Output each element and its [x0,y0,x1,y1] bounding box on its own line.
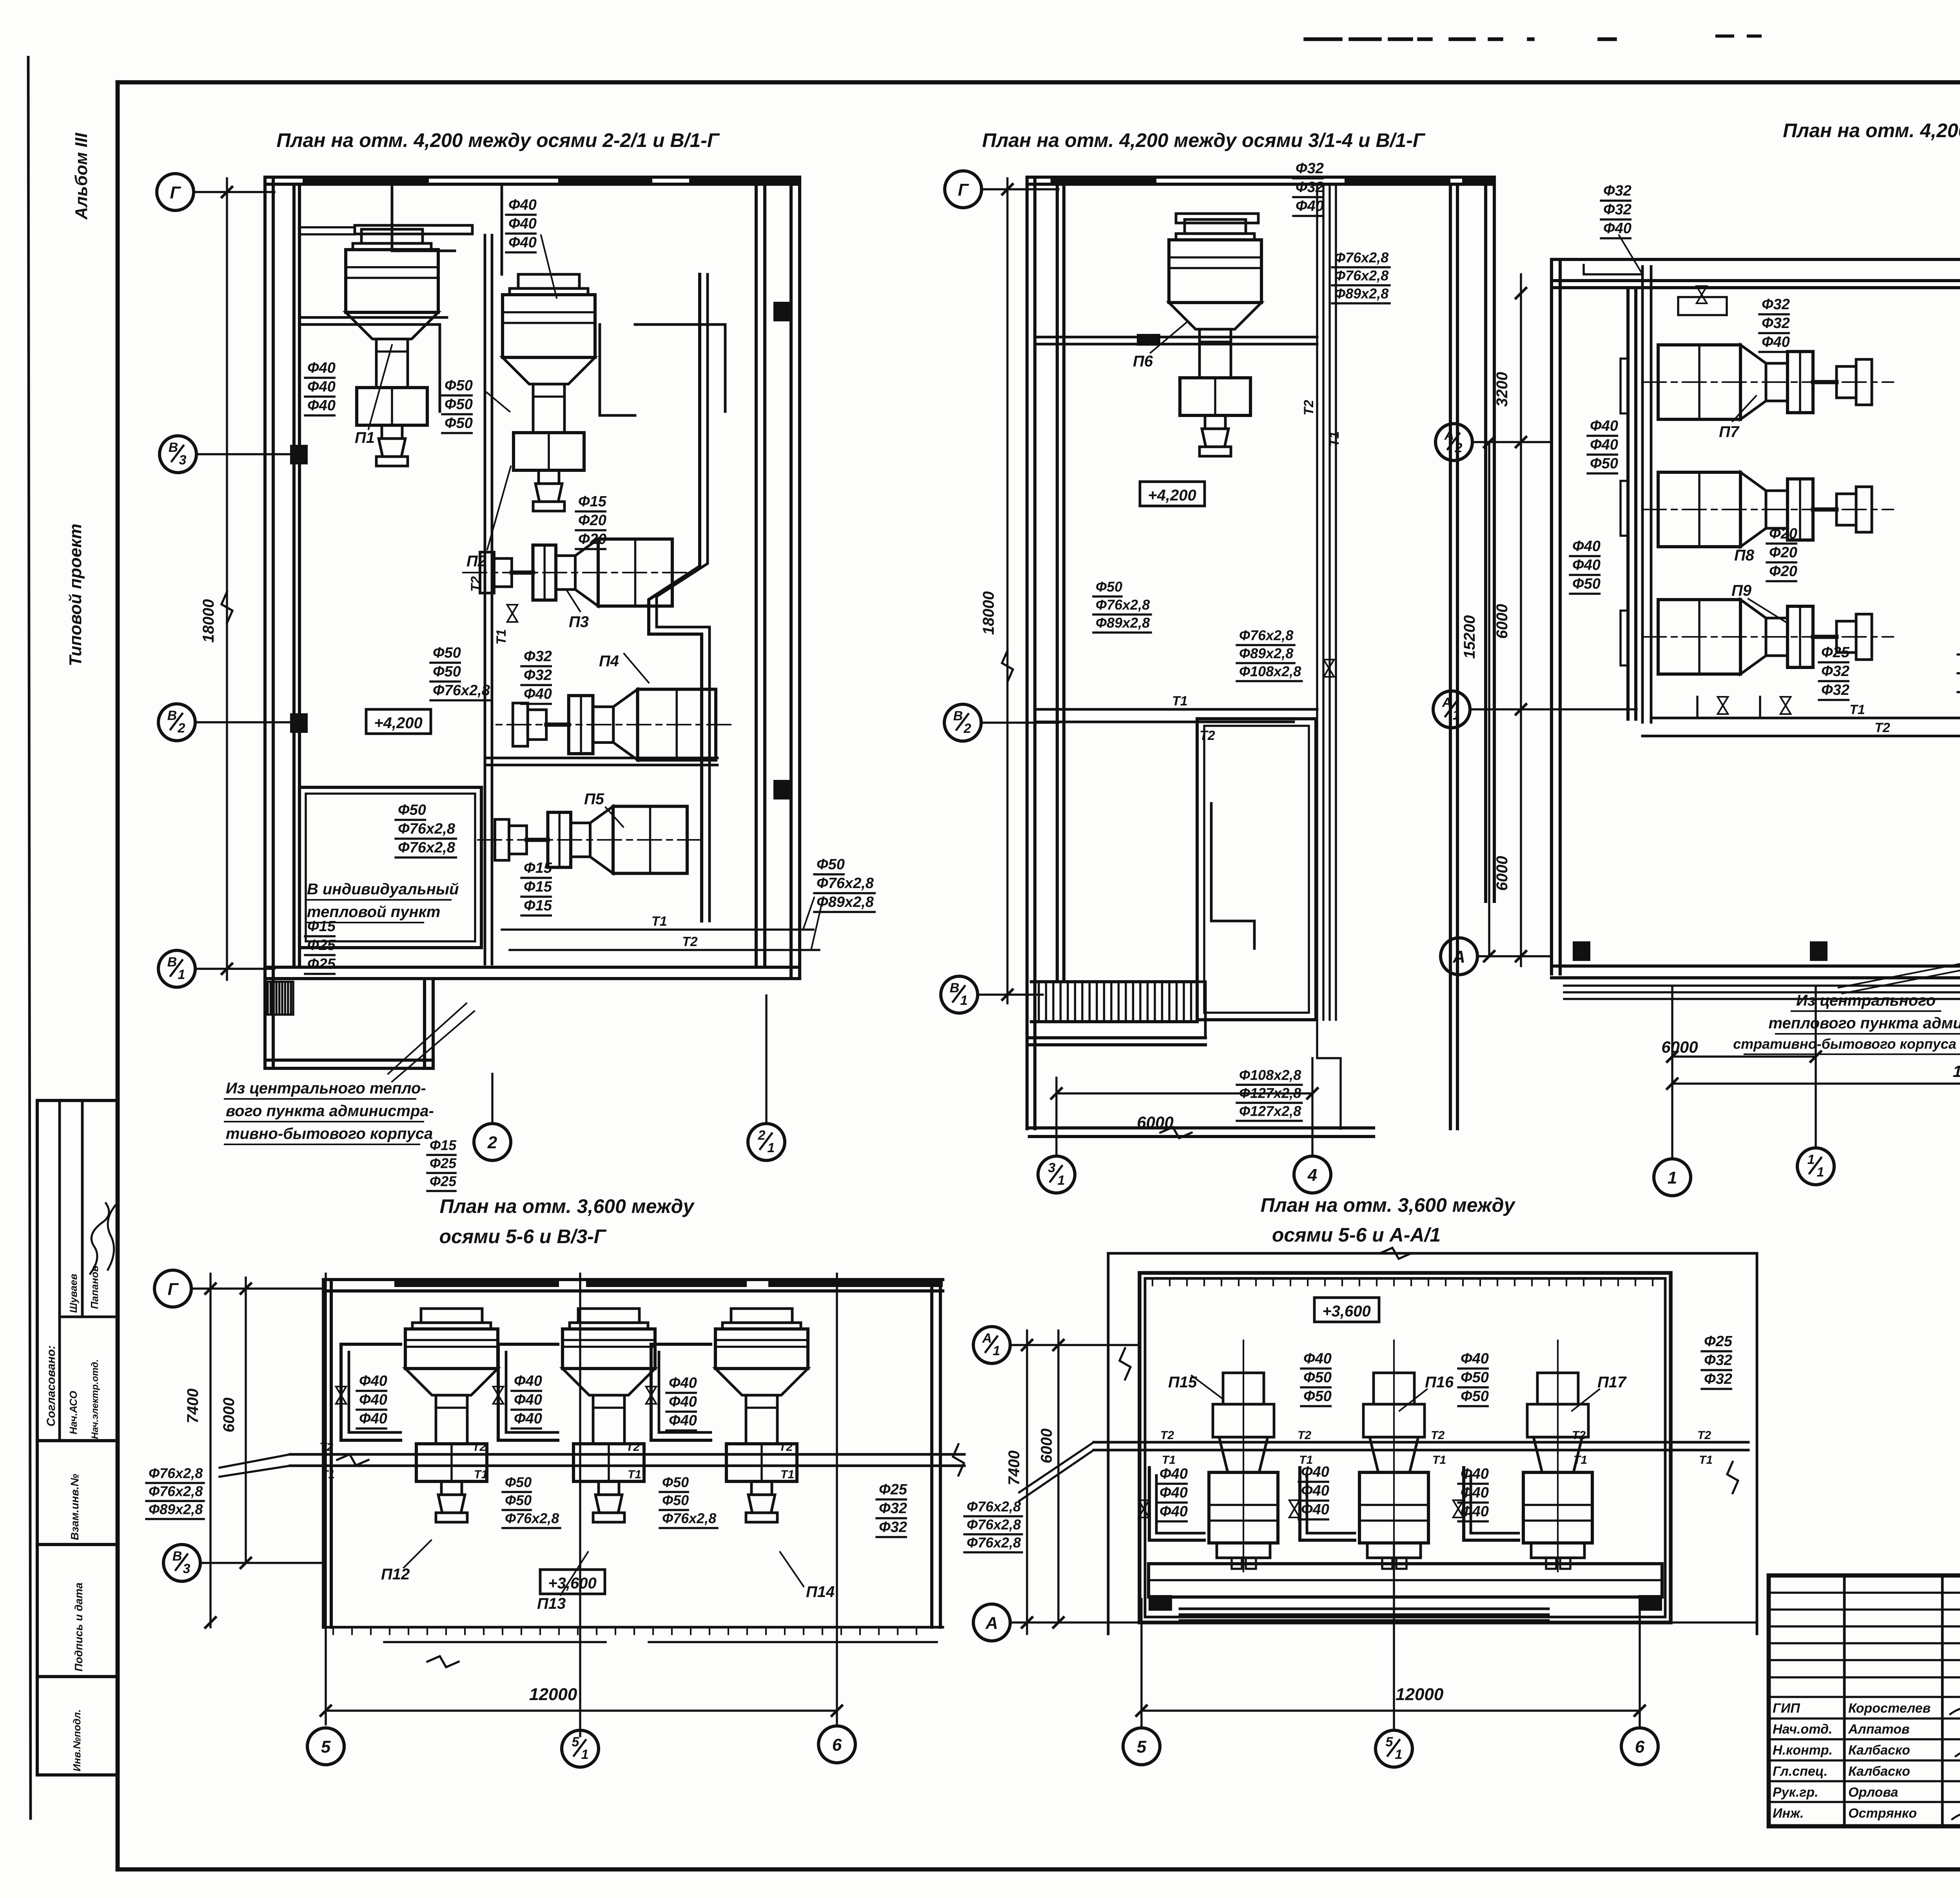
svg-text:Ф15: Ф15 [524,897,552,914]
svg-text:П5: П5 [584,790,604,808]
svg-text:Ф50: Ф50 [433,663,461,680]
svg-text:Ф20: Ф20 [578,512,606,529]
svg-text:Ф32: Ф32 [1821,682,1849,698]
svg-text:Ф50: Ф50 [505,1474,532,1490]
svg-text:Ф15: Ф15 [307,918,336,935]
svg-text:Ф20: Ф20 [1769,544,1797,561]
svg-text:7400: 7400 [1005,1450,1023,1485]
svg-text:Калбаско: Калбаско [1848,1743,1910,1758]
svg-text:Ф40: Ф40 [1590,437,1618,453]
svg-text:1: 1 [768,1140,775,1155]
svg-text:Ф32: Ф32 [1603,201,1632,218]
svg-text:осями 5-6 и В/3-Г: осями 5-6 и В/3-Г [439,1225,607,1247]
svg-text:Ф40: Ф40 [1301,1501,1329,1518]
svg-text:В: В [950,981,960,995]
svg-text:П2: П2 [466,553,486,570]
svg-text:Т1: Т1 [1432,1454,1446,1467]
svg-text:1: 1 [1453,708,1460,723]
svg-text:План на отм. 4,200 между осями: План на отм. 4,200 между осями 1÷3 и А-А… [1783,120,1960,141]
svg-text:3: 3 [1048,1160,1056,1175]
svg-text:+4,200: +4,200 [1148,487,1196,504]
svg-text:Типовой проект: Типовой проект [66,524,85,666]
svg-text:Ф76х2,8: Ф76х2,8 [967,1535,1021,1551]
svg-text:Орлова: Орлова [1848,1785,1898,1800]
svg-text:Ф32: Ф32 [1821,663,1849,680]
svg-text:Альбом III: Альбом III [72,132,91,220]
svg-text:Ф32: Ф32 [524,648,552,665]
svg-text:П6: П6 [1133,353,1153,370]
svg-text:3: 3 [183,1561,191,1576]
svg-text:П7: П7 [1719,423,1740,441]
svg-text:Ф50: Ф50 [1590,455,1618,472]
svg-text:Ф76х2,8: Ф76х2,8 [1239,627,1293,644]
svg-text:Ф20: Ф20 [1769,563,1797,580]
svg-text:Ф108х2,8: Ф108х2,8 [1239,663,1301,680]
svg-text:Ф25: Ф25 [307,956,336,972]
svg-text:Н.контр.: Н.контр. [1773,1743,1833,1758]
svg-text:Ф25: Ф25 [1821,644,1850,661]
svg-text:П4: П4 [599,653,619,670]
svg-text:2: 2 [964,721,971,736]
svg-text:Ф89х2,8: Ф89х2,8 [1096,615,1150,631]
svg-text:Т1: Т1 [652,914,667,929]
svg-text:Ф76х2,8: Ф76х2,8 [433,682,490,699]
svg-text:1: 1 [1668,1168,1677,1187]
svg-text:Нач.отд.: Нач.отд. [1773,1722,1832,1737]
svg-text:15200: 15200 [1461,615,1478,659]
svg-text:Ф15: Ф15 [524,860,552,876]
svg-text:П3: П3 [569,613,589,631]
svg-text:Шуваев: Шуваев [67,1274,79,1313]
svg-text:Ф32: Ф32 [879,1519,907,1535]
svg-text:5: 5 [321,1737,331,1757]
svg-text:осями 5-6 и А-А/1: осями 5-6 и А-А/1 [1272,1224,1441,1246]
svg-text:Ф32: Ф32 [1296,160,1324,177]
svg-text:Ф50: Ф50 [1461,1369,1489,1386]
svg-text:Ф50: Ф50 [398,802,426,818]
svg-text:Т1: Т1 [474,1468,488,1481]
svg-text:5: 5 [1137,1737,1147,1757]
svg-text:5: 5 [1386,1735,1394,1749]
svg-text:Т2: Т2 [779,1441,793,1454]
svg-text:Т2: Т2 [1572,1429,1586,1442]
svg-text:Согласовано:: Согласовано: [45,1345,58,1427]
svg-text:1: 1 [1058,1173,1065,1188]
svg-text:Из центрального: Из центрального [1796,992,1936,1009]
svg-text:Ф40: Ф40 [1301,1464,1329,1480]
svg-text:А: А [1452,947,1465,966]
svg-text:Ф40: Ф40 [1160,1466,1188,1482]
svg-text:Инв.№подл.: Инв.№подл. [71,1709,83,1771]
svg-text:Ф76х2,8: Ф76х2,8 [398,821,456,837]
svg-text:Ф40: Ф40 [508,216,537,232]
svg-text:Гл.спец.: Гл.спец. [1773,1764,1828,1779]
svg-text:Ф20: Ф20 [578,531,606,547]
svg-text:Ф32: Ф32 [524,667,552,683]
svg-text:3200: 3200 [1494,372,1511,407]
svg-text:Ф76х2,8: Ф76х2,8 [1334,268,1388,284]
svg-text:Т2: Т2 [1875,720,1890,735]
svg-text:Ф40: Ф40 [307,360,336,376]
svg-text:Т1: Т1 [1327,431,1342,447]
svg-text:6000: 6000 [1038,1428,1055,1463]
svg-text:Ф40: Ф40 [1590,418,1618,434]
svg-text:Т1: Т1 [1849,702,1865,717]
svg-text:Ф76х2,8: Ф76х2,8 [149,1465,203,1481]
svg-text:Ф50: Ф50 [1303,1369,1332,1386]
svg-text:А: А [985,1613,998,1633]
svg-text:П13: П13 [537,1595,566,1612]
svg-text:+3,600: +3,600 [1322,1303,1370,1320]
svg-text:стративно-бытового корпуса Ф10: стративно-бытового корпуса Ф108х2,8 [1733,1036,1960,1052]
svg-text:4: 4 [1307,1166,1317,1185]
svg-text:В индивидуальный: В индивидуальный [307,881,459,898]
svg-text:Взам.инв.№: Взам.инв.№ [69,1474,81,1540]
svg-text:Т1: Т1 [1172,694,1188,709]
svg-text:Ф40: Ф40 [508,234,537,251]
svg-text:1: 1 [581,1747,589,1762]
svg-text:Ф32: Ф32 [1762,315,1790,332]
svg-text:В: В [167,708,177,723]
svg-text:Ф89х2,8: Ф89х2,8 [1239,645,1293,662]
svg-text:Г: Г [170,183,181,202]
svg-text:Ф25: Ф25 [879,1481,907,1498]
svg-text:П9: П9 [1731,582,1752,599]
svg-text:Ф76х2,8: Ф76х2,8 [149,1483,203,1499]
svg-text:Ф50: Ф50 [1303,1388,1332,1405]
svg-text:+4,200: +4,200 [374,714,422,732]
svg-text:2: 2 [1455,441,1463,455]
svg-text:Ф40: Ф40 [1572,557,1601,573]
svg-text:Т2: Т2 [1200,728,1215,743]
svg-text:Ф89х2,8: Ф89х2,8 [817,894,874,910]
svg-text:Ф50: Ф50 [445,415,473,431]
svg-text:6000: 6000 [1494,604,1511,639]
svg-text:Ф40: Ф40 [514,1373,542,1389]
svg-text:Подпись и дата: Подпись и дата [73,1583,85,1671]
svg-text:тепловой пункт: тепловой пункт [307,903,440,921]
svg-text:П12: П12 [381,1566,410,1583]
svg-text:А: А [1442,695,1452,710]
svg-text:Г: Г [167,1280,179,1299]
svg-text:Рук.гр.: Рук.гр. [1773,1785,1818,1800]
svg-text:Ф25: Ф25 [430,1155,457,1171]
svg-text:Ф50: Ф50 [662,1474,689,1490]
svg-text:12000: 12000 [1396,1685,1444,1704]
svg-text:А: А [1444,428,1454,443]
svg-text:П16: П16 [1425,1374,1454,1391]
svg-text:Ф40: Ф40 [359,1373,387,1389]
svg-text:Ф25: Ф25 [1704,1333,1733,1350]
svg-text:П8: П8 [1734,547,1755,564]
svg-text:6000: 6000 [1494,856,1511,891]
svg-text:18000: 18000 [200,599,217,643]
svg-text:Т1: Т1 [1699,1454,1713,1467]
svg-text:Ф127х2,8: Ф127х2,8 [1239,1103,1301,1119]
svg-text:Ф40: Ф40 [514,1392,542,1408]
svg-text:Нач.электр.отд.: Нач.электр.отд. [90,1359,100,1439]
svg-text:П14: П14 [806,1583,835,1601]
svg-text:+3,600: +3,600 [548,1575,596,1592]
svg-text:Ф50: Ф50 [1572,576,1601,592]
svg-text:5: 5 [572,1735,580,1749]
svg-text:Ф40: Ф40 [1762,334,1790,350]
svg-text:Ф40: Ф40 [359,1392,387,1408]
svg-text:Т1: Т1 [780,1468,794,1481]
svg-text:Ф32: Ф32 [1603,183,1632,199]
svg-text:Ф40: Ф40 [1461,1503,1489,1520]
svg-text:Ф108х2,8: Ф108х2,8 [1239,1067,1301,1083]
svg-text:Из центрального тепло-: Из центрального тепло- [226,1080,426,1097]
svg-text:вого пункта администра-: вого пункта администра- [226,1102,434,1120]
svg-text:Т2: Т2 [1298,1429,1311,1442]
svg-text:Ф40: Ф40 [1296,198,1324,214]
svg-text:Т2: Т2 [1697,1429,1711,1442]
svg-text:12000: 12000 [529,1685,577,1704]
svg-text:1: 1 [1817,1165,1824,1180]
svg-text:В: В [169,440,178,455]
svg-text:6: 6 [1635,1737,1645,1757]
svg-text:Ф40: Ф40 [524,686,552,702]
svg-text:Ф50: Ф50 [1461,1388,1489,1405]
svg-text:Ф32: Ф32 [1296,179,1324,196]
svg-text:Т2: Т2 [1160,1429,1174,1442]
svg-text:В: В [953,709,963,723]
svg-text:Калбаско: Калбаско [1848,1764,1910,1779]
svg-text:План на отм. 4,200 между осями: План на отм. 4,200 между осями 3/1-4 и В… [982,129,1426,151]
svg-text:Ф40: Ф40 [1303,1351,1332,1367]
svg-text:Ф20: Ф20 [1769,526,1797,542]
svg-text:Ф50: Ф50 [433,645,461,661]
svg-text:Ф40: Ф40 [514,1410,542,1427]
svg-text:Ф40: Ф40 [359,1410,387,1427]
svg-text:Т1: Т1 [628,1468,641,1481]
svg-text:Ф76х2,8: Ф76х2,8 [1334,250,1388,266]
svg-text:18000: 18000 [980,591,997,635]
svg-text:Ф15: Ф15 [430,1137,457,1153]
svg-text:Ф40: Ф40 [1160,1503,1188,1520]
svg-text:Т2: Т2 [472,1441,486,1454]
svg-text:6: 6 [832,1735,842,1755]
svg-text:Ф40: Ф40 [1301,1483,1329,1499]
svg-text:Т1: Т1 [1573,1454,1587,1467]
svg-text:ГИП: ГИП [1773,1701,1800,1716]
svg-text:Ф76х2,8: Ф76х2,8 [967,1517,1021,1533]
svg-text:Т2: Т2 [319,1441,333,1454]
svg-text:Ф40: Ф40 [1461,1351,1489,1367]
svg-text:Ф40: Ф40 [669,1394,697,1410]
svg-text:6000: 6000 [220,1398,238,1432]
svg-text:Т2: Т2 [626,1441,640,1454]
svg-text:Ф76х2,8: Ф76х2,8 [817,875,874,892]
svg-text:Ф40: Ф40 [1461,1485,1489,1501]
svg-text:Т1: Т1 [494,629,509,645]
svg-text:1: 1 [960,993,968,1008]
svg-text:Т1: Т1 [321,1468,335,1481]
svg-text:3: 3 [179,453,187,468]
svg-text:Ф32: Ф32 [1704,1352,1732,1369]
svg-text:Ф25: Ф25 [430,1173,457,1189]
svg-text:Г: Г [958,180,969,199]
svg-text:Ф32: Ф32 [1762,296,1790,313]
svg-text:теплового пункта админи-: теплового пункта админи- [1769,1015,1960,1032]
svg-text:Ф32: Ф32 [1704,1371,1732,1387]
svg-text:В: В [172,1549,182,1564]
svg-text:18000: 18000 [1953,1062,1960,1080]
svg-text:Ф40: Ф40 [307,397,336,414]
svg-text:Ф76х2,8: Ф76х2,8 [398,839,456,856]
svg-text:Т2: Т2 [1431,1429,1445,1442]
svg-text:Ф40: Ф40 [1603,220,1632,237]
svg-text:Ф50: Ф50 [662,1492,689,1508]
svg-text:Ф40: Ф40 [1461,1466,1489,1482]
svg-text:Ф32: Ф32 [879,1500,907,1517]
svg-text:Коростелев: Коростелев [1848,1701,1931,1716]
svg-text:2: 2 [178,721,185,736]
svg-text:Ф25: Ф25 [307,937,336,954]
svg-text:В: В [167,955,177,970]
svg-text:1: 1 [178,967,185,982]
svg-text:Ф40: Ф40 [1572,538,1601,555]
svg-text:Ф76х2,8: Ф76х2,8 [1096,597,1150,613]
svg-text:Инж.: Инж. [1773,1806,1804,1821]
svg-text:Ф40: Ф40 [1160,1485,1188,1501]
svg-text:Т2: Т2 [682,934,698,949]
svg-text:Ф76х2,8: Ф76х2,8 [967,1499,1021,1515]
svg-text:План на отм. 3,600 между: План на отм. 3,600 между [1261,1194,1516,1216]
svg-text:П1: П1 [355,429,375,446]
svg-text:План на отм. 3,600 между: План на отм. 3,600 между [440,1195,695,1217]
svg-text:П17: П17 [1597,1374,1627,1391]
svg-text:Ф50: Ф50 [1096,579,1122,595]
svg-text:Ф89х2,8: Ф89х2,8 [1334,286,1388,302]
svg-text:1: 1 [1395,1747,1403,1762]
svg-text:Острянко: Острянко [1848,1806,1917,1821]
svg-text:7400: 7400 [184,1389,201,1423]
svg-text:Ф40: Ф40 [508,197,537,213]
svg-text:2: 2 [758,1128,766,1143]
svg-text:Ф15: Ф15 [524,879,552,895]
svg-text:Т2: Т2 [1301,400,1316,415]
svg-text:Ф40: Ф40 [669,1412,697,1429]
svg-text:Т1: Т1 [1162,1454,1176,1467]
svg-text:тивно-бытового корпуса: тивно-бытового корпуса [226,1125,433,1142]
svg-text:Ф40: Ф40 [307,379,336,395]
svg-text:Ф50: Ф50 [445,377,473,394]
svg-text:1: 1 [993,1343,1000,1358]
svg-text:Ф76х2,8: Ф76х2,8 [505,1510,559,1526]
svg-text:Нач.АСО: Нач.АСО [67,1391,79,1434]
svg-text:1: 1 [1808,1152,1815,1167]
svg-text:6000: 6000 [1661,1038,1698,1056]
svg-text:Ф89х2,8: Ф89х2,8 [149,1501,203,1517]
svg-text:Ф50: Ф50 [817,856,845,873]
svg-text:Ф50: Ф50 [505,1492,532,1508]
svg-text:2: 2 [487,1133,497,1152]
svg-text:Ф15: Ф15 [578,493,607,510]
svg-text:Ф50: Ф50 [445,396,473,413]
svg-text:Алпатов: Алпатов [1848,1722,1909,1737]
svg-text:Ф40: Ф40 [669,1375,697,1391]
svg-text:План на отм. 4,200 между осями: План на отм. 4,200 между осями 2-2/1 и В… [276,129,720,151]
svg-text:Ф76х2,8: Ф76х2,8 [662,1510,716,1526]
svg-text:А: А [982,1331,992,1346]
